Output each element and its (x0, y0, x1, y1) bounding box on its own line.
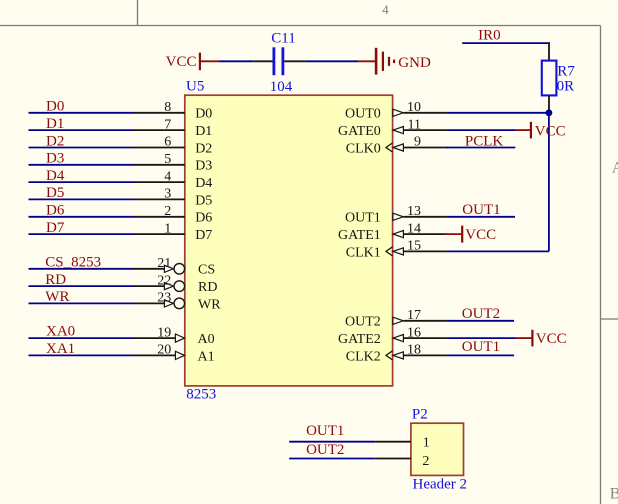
svg-text:13: 13 (407, 204, 421, 219)
svg-text:D1: D1 (195, 124, 212, 139)
svg-text:CS_8253: CS_8253 (45, 255, 101, 271)
svg-text:GATE2: GATE2 (338, 332, 381, 347)
svg-text:3: 3 (164, 187, 171, 202)
svg-text:22: 22 (157, 273, 171, 288)
svg-text:OUT1: OUT1 (306, 423, 344, 439)
svg-text:4: 4 (164, 169, 171, 184)
svg-text:D6: D6 (46, 203, 65, 219)
svg-text:D7: D7 (195, 228, 212, 243)
svg-text:D0: D0 (195, 107, 212, 122)
svg-text:D2: D2 (195, 141, 212, 156)
svg-text:U5: U5 (186, 79, 204, 95)
svg-text:D7: D7 (46, 220, 65, 236)
svg-text:RD: RD (45, 272, 66, 288)
svg-text:VCC: VCC (535, 123, 566, 139)
svg-text:OUT0: OUT0 (345, 107, 381, 122)
svg-text:D6: D6 (195, 211, 212, 226)
svg-text:19: 19 (157, 325, 171, 340)
svg-text:C11: C11 (271, 31, 295, 47)
svg-text:16: 16 (407, 325, 421, 340)
svg-text:A: A (612, 159, 618, 176)
svg-text:18: 18 (407, 343, 421, 358)
svg-text:OUT2: OUT2 (462, 306, 500, 322)
svg-text:1: 1 (423, 435, 430, 450)
svg-text:10: 10 (407, 100, 421, 115)
svg-text:D5: D5 (46, 185, 64, 201)
svg-text:14: 14 (407, 221, 421, 236)
svg-text:D3: D3 (195, 159, 212, 174)
svg-text:CLK1: CLK1 (346, 245, 381, 260)
svg-text:A0: A0 (198, 332, 215, 347)
svg-text:VCC: VCC (465, 227, 496, 243)
svg-text:D4: D4 (195, 176, 212, 191)
svg-text:OUT1: OUT1 (462, 202, 500, 218)
svg-text:CS: CS (198, 263, 215, 278)
svg-text:1: 1 (164, 221, 171, 236)
svg-text:0R: 0R (557, 78, 575, 94)
svg-text:CLK2: CLK2 (346, 349, 381, 364)
svg-text:2: 2 (164, 204, 171, 219)
svg-text:104: 104 (270, 79, 293, 95)
svg-text:GND: GND (398, 55, 431, 71)
svg-text:PCLK: PCLK (465, 134, 504, 150)
svg-text:R7: R7 (557, 63, 575, 79)
svg-text:B: B (610, 486, 618, 503)
svg-text:6: 6 (164, 135, 171, 150)
svg-text:11: 11 (408, 117, 421, 132)
svg-text:23: 23 (157, 291, 171, 306)
svg-text:CLK0: CLK0 (346, 141, 381, 156)
svg-text:A1: A1 (198, 349, 215, 364)
svg-text:IR0: IR0 (478, 28, 501, 44)
svg-text:8253: 8253 (186, 387, 216, 403)
svg-text:GATE1: GATE1 (338, 228, 381, 243)
svg-text:OUT1: OUT1 (462, 339, 500, 355)
svg-text:D5: D5 (195, 193, 212, 208)
svg-text:7: 7 (164, 117, 171, 132)
svg-text:OUT1: OUT1 (345, 211, 381, 226)
svg-text:2: 2 (422, 454, 429, 469)
svg-text:XA1: XA1 (46, 341, 75, 357)
svg-text:9: 9 (414, 135, 421, 150)
svg-text:P2: P2 (412, 407, 428, 423)
svg-text:OUT2: OUT2 (345, 315, 381, 330)
svg-text:WR: WR (198, 297, 221, 312)
svg-text:XA0: XA0 (46, 324, 75, 340)
svg-text:17: 17 (407, 308, 421, 323)
svg-text:4: 4 (382, 2, 389, 17)
svg-text:15: 15 (407, 239, 421, 254)
svg-text:8: 8 (164, 100, 171, 115)
svg-text:D0: D0 (46, 99, 64, 115)
svg-text:D2: D2 (46, 133, 64, 149)
svg-text:5: 5 (164, 152, 171, 167)
svg-text:Header 2: Header 2 (413, 477, 468, 493)
svg-text:VCC: VCC (166, 54, 197, 70)
svg-text:21: 21 (157, 256, 171, 271)
svg-text:20: 20 (157, 343, 171, 358)
svg-text:RD: RD (198, 280, 217, 295)
svg-text:D3: D3 (46, 151, 64, 167)
svg-text:WR: WR (45, 289, 69, 305)
svg-text:OUT2: OUT2 (306, 442, 344, 458)
svg-text:D4: D4 (46, 168, 65, 184)
svg-text:GATE0: GATE0 (338, 124, 381, 139)
svg-text:D1: D1 (46, 116, 64, 132)
svg-text:VCC: VCC (536, 331, 567, 347)
